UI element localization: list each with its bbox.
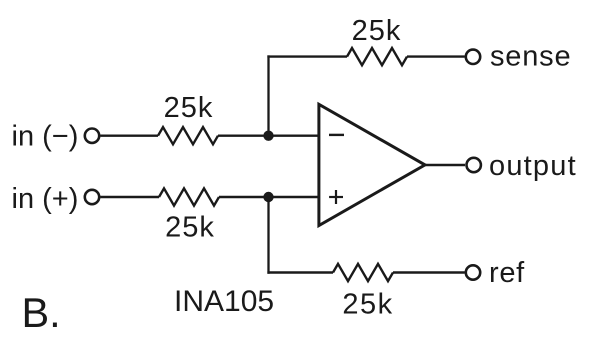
wire: ref riser from non-inverting node down — [267, 197, 269, 274]
terminal circle: ref — [466, 265, 480, 279]
op-amp U1 triangle — [319, 104, 425, 225]
node: inverting summing junction dot — [263, 131, 273, 141]
node: non-inverting junction dot — [263, 192, 273, 202]
wire: in(+) terminal to R2 — [100, 196, 159, 198]
svg-text:in (−): in (−) — [12, 120, 79, 152]
wire: R1 to inverting node — [218, 134, 319, 136]
svg-text:25k: 25k — [342, 289, 393, 321]
wire: R4 to ref terminal — [393, 271, 465, 273]
wire: R2 to non-inverting node — [219, 196, 319, 198]
resistor R4 25k (ref) — [333, 264, 393, 281]
svg-text:25k: 25k — [165, 212, 215, 244]
svg-text:INA105: INA105 — [174, 285, 274, 318]
svg-text:in (+): in (+) — [12, 183, 79, 215]
resistor R2 25k (non-inverting input) — [159, 188, 219, 205]
op-amp non-inverting input plus sign — [329, 190, 343, 204]
terminal circle: in(-) — [85, 129, 99, 143]
wire: in(-) terminal to R1 — [100, 134, 158, 136]
op-amp inverting input minus sign — [329, 134, 344, 136]
resistor R1 25k (inverting input) — [158, 127, 218, 144]
svg-text:25k: 25k — [164, 92, 214, 124]
svg-text:ref: ref — [489, 257, 525, 289]
resistor R3 25k (feedback/sense) — [347, 48, 407, 65]
svg-text:25k: 25k — [352, 15, 402, 47]
wire: feedback riser from inverting node up — [267, 55, 269, 135]
svg-text:output: output — [489, 150, 577, 182]
terminal circle: output — [467, 158, 481, 172]
svg-text:B.: B. — [22, 289, 61, 336]
wire: op-amp output to output terminal — [425, 164, 465, 166]
wire: R3 to sense terminal — [407, 55, 465, 57]
wire: bottom horizontal to R4 — [267, 271, 333, 273]
terminal circle: sense — [466, 50, 480, 64]
terminal circle: in(+) — [85, 190, 99, 204]
svg-text:sense: sense — [490, 41, 571, 73]
wire: top horizontal to R3 — [267, 55, 347, 57]
